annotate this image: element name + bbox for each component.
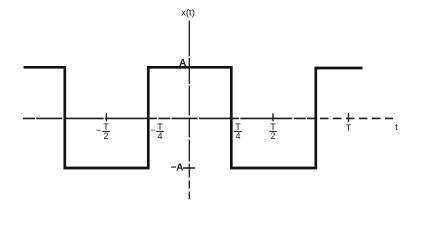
- tick -T/2: [105, 113, 107, 121]
- vertical axis x(t): [188, 21, 190, 200]
- svg-text:−: −: [150, 125, 155, 135]
- svg-text:A: A: [179, 58, 186, 69]
- svg-text:T: T: [346, 123, 352, 133]
- tick T/2: [272, 113, 274, 121]
- square wave x(t): [24, 67, 363, 168]
- label -T/2 fraction: [102, 122, 110, 141]
- svg-text:2: 2: [103, 131, 108, 141]
- time axis t: [23, 117, 316, 119]
- svg-text:x(t): x(t): [181, 8, 195, 19]
- label -T/4 fraction: [156, 122, 164, 141]
- svg-text:−: −: [96, 125, 101, 135]
- time axis dashed right part: [320, 117, 393, 119]
- svg-text:t: t: [395, 122, 398, 133]
- label T/4 fraction: [234, 122, 242, 141]
- tick T: [348, 113, 350, 122]
- label T/2 fraction: [269, 122, 277, 141]
- svg-text:4: 4: [157, 131, 162, 141]
- tick -A: [183, 167, 195, 169]
- svg-text:2: 2: [270, 131, 275, 141]
- svg-text:−A: −A: [170, 163, 183, 174]
- svg-text:4: 4: [235, 131, 240, 141]
